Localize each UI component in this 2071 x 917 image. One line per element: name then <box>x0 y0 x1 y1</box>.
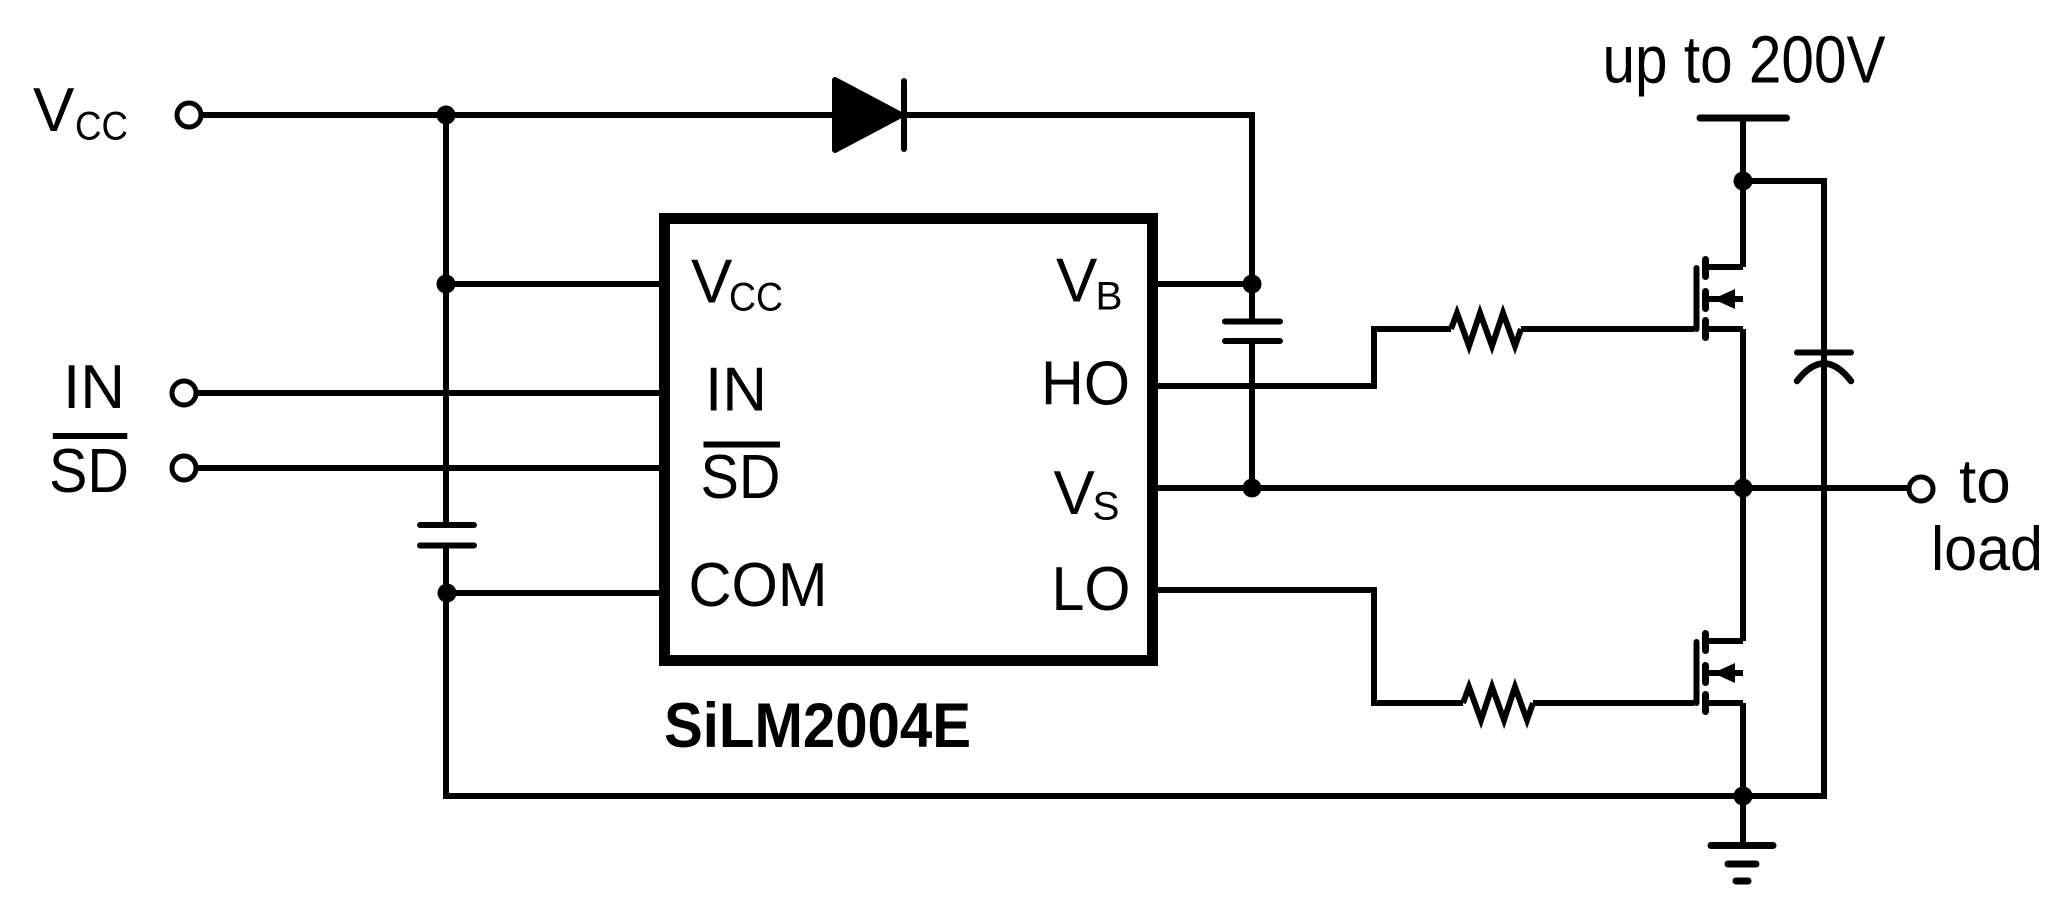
MOSFET Q1 high-side <box>1697 181 1744 488</box>
label SD input overline <box>53 433 128 439</box>
svg-text:CC: CC <box>729 276 783 320</box>
capacitor C2 bootstrap <box>1225 284 1280 488</box>
wire supply to drain node <box>1740 118 1746 181</box>
svg-text:CC: CC <box>75 105 128 149</box>
svg-text:COM: COM <box>689 551 828 620</box>
wire bottom COM rail <box>443 793 1827 799</box>
wire R2 to Q2 gate <box>1533 700 1694 706</box>
svg-text:load: load <box>1931 515 2043 584</box>
svg-text:S: S <box>1093 485 1120 529</box>
svg-text:SD: SD <box>49 437 129 506</box>
junction node VS-switch <box>1734 479 1753 498</box>
svg-text:to: to <box>1959 448 2011 517</box>
capacitor C1 bypass plates <box>420 525 474 546</box>
svg-text:V: V <box>33 76 75 145</box>
svg-text:IN: IN <box>63 353 125 422</box>
ground <box>1711 796 1773 881</box>
terminal to-load <box>1909 477 1933 501</box>
capacitor C3 output <box>1797 352 1851 796</box>
wire VCC pin <box>446 281 664 287</box>
resistor R1 high-side gate <box>1451 313 1521 346</box>
terminal IN <box>172 381 196 405</box>
wire R1 to Q1 gate <box>1521 326 1694 332</box>
junction node COM <box>438 584 457 603</box>
MOSFET Q2 low-side <box>1697 488 1744 796</box>
wire SD <box>196 465 664 471</box>
wire VCC rail top <box>201 115 1252 284</box>
wire VS to load <box>1153 485 1909 491</box>
wire HO to gate resistor <box>1153 329 1451 386</box>
supply rail bar <box>1700 115 1787 122</box>
svg-text:V: V <box>1054 459 1096 528</box>
svg-text:up to 200V: up to 200V <box>1603 23 1886 98</box>
junction node VCC-left <box>437 106 456 125</box>
wire left vertical VCC branch <box>443 115 449 796</box>
wire IN <box>196 390 664 396</box>
resistor R2 low-side gate <box>1463 687 1533 720</box>
junction node drain-top <box>1734 172 1753 191</box>
pin label SD overline <box>704 442 781 448</box>
junction node VB <box>1243 275 1262 294</box>
junction node ground <box>1734 787 1753 806</box>
svg-text:IN: IN <box>705 356 767 425</box>
svg-text:B: B <box>1096 275 1123 319</box>
diode D1 <box>835 80 904 150</box>
svg-text:V: V <box>691 248 733 317</box>
junction node VS-cap <box>1243 479 1262 498</box>
wire COM pin <box>447 590 664 596</box>
svg-text:SD: SD <box>701 443 781 512</box>
terminal VCC <box>177 103 201 127</box>
IC U1 SiLM2004E box <box>665 219 1153 661</box>
terminal SD <box>172 456 196 480</box>
wire drain node to output cap <box>1743 181 1824 352</box>
wire LO to gate resistor <box>1153 590 1463 703</box>
junction node VCC-pin <box>437 275 456 294</box>
svg-text:HO: HO <box>1041 350 1130 419</box>
svg-text:LO: LO <box>1052 555 1131 624</box>
svg-text:V: V <box>1056 247 1098 316</box>
wire VB pin <box>1153 281 1252 287</box>
svg-text:SiLM2004E: SiLM2004E <box>664 691 971 761</box>
